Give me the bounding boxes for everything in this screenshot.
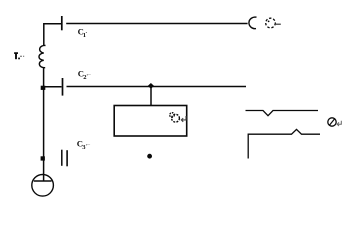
svg-text:·: · xyxy=(85,30,87,37)
svg-text:←: ← xyxy=(85,140,92,148)
svg-text:←: ← xyxy=(85,70,92,78)
